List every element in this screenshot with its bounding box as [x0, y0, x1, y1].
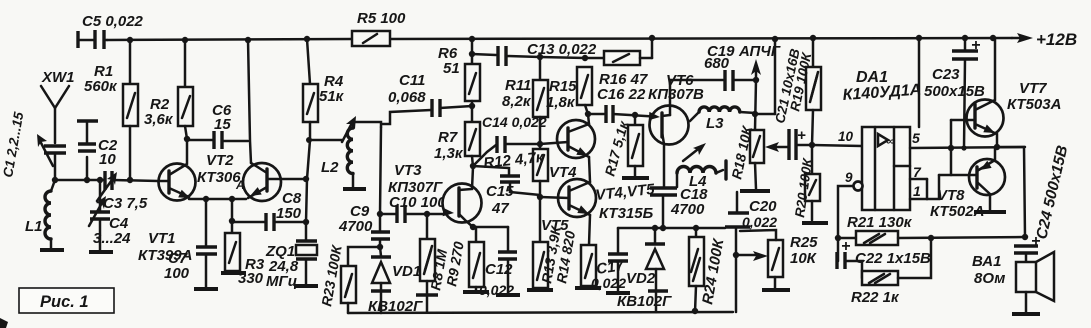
wire VT3 source — [470, 224, 508, 230]
svg-text:С22 1х15В: С22 1х15В — [855, 250, 931, 267]
svg-text:VT8: VT8 — [937, 187, 965, 204]
wire R16 to rail — [651, 38, 654, 58]
svg-text:R5 100: R5 100 — [357, 10, 406, 27]
wire L2 tap to C9 C10 node — [380, 127, 381, 214]
svg-text:+: + — [971, 37, 980, 54]
svg-text:КТ502А: КТ502А — [930, 203, 984, 220]
svg-text:КТ503А: КТ503А — [1007, 96, 1061, 113]
svg-text:1: 1 — [913, 183, 921, 199]
transistor VT6 — [648, 72, 704, 188]
resistor R4 — [303, 39, 345, 140]
svg-text:КВ102Г: КВ102Г — [368, 298, 423, 315]
resistor R3 — [221, 196, 265, 287]
svg-text:680: 680 — [704, 55, 730, 72]
node antenna input — [52, 177, 58, 183]
transistor VT8 — [930, 147, 1006, 220]
capacitor C4 variable — [89, 177, 131, 252]
svg-text:МГц: МГц — [266, 273, 297, 290]
capacitor C13 — [469, 41, 597, 66]
svg-text:8,2к: 8,2к — [502, 93, 532, 110]
wire input node to VT1 base — [55, 179, 104, 182]
capacitor C22 — [837, 238, 931, 278]
capacitor C3 trimmer — [97, 171, 148, 212]
resistor R24 — [689, 228, 728, 314]
capacitor C18 — [650, 186, 708, 228]
svg-text:330: 330 — [238, 270, 264, 287]
resistor R7 — [434, 122, 480, 169]
wire IF supply line — [537, 54, 588, 61]
svg-text:5: 5 — [912, 130, 920, 146]
capacitor C14 — [473, 114, 547, 166]
capacitor C2 — [77, 121, 118, 183]
svg-text:0,022: 0,022 — [591, 275, 626, 291]
svg-text:R21 130к: R21 130к — [847, 214, 913, 231]
svg-text:VD1: VD1 — [392, 263, 421, 280]
resistor R9 — [463, 227, 489, 292]
APCHG arrow terminal — [738, 43, 781, 83]
wire VT1 VT2 emitters — [189, 198, 246, 201]
antenna XW1 — [41, 69, 75, 143]
svg-text:15: 15 — [214, 116, 231, 133]
resistor R14 — [575, 215, 601, 288]
svg-text:R15: R15 — [549, 78, 577, 95]
svg-text:0,022: 0,022 — [479, 282, 514, 298]
resistor R1 — [84, 40, 138, 183]
svg-text:7: 7 — [913, 164, 922, 180]
svg-text:10К: 10К — [790, 250, 818, 267]
svg-text:+12В: +12В — [1036, 30, 1077, 49]
inductor L4 — [677, 161, 726, 190]
svg-text:VT5: VT5 — [541, 217, 569, 234]
svg-text:КТ306: КТ306 — [197, 169, 241, 186]
svg-text:VT7: VT7 — [1019, 80, 1047, 97]
capacitor C6 — [187, 102, 248, 149]
svg-text:∞: ∞ — [886, 134, 895, 148]
capacitor C10 — [380, 194, 446, 223]
svg-text:XW1: XW1 — [41, 69, 75, 86]
svg-text:0,022: 0,022 — [742, 214, 777, 230]
transistor VT3 — [388, 162, 482, 227]
svg-text:КВ102Г: КВ102Г — [617, 293, 672, 310]
transistor VT5 — [540, 157, 656, 234]
transistor VT7 — [951, 38, 1061, 237]
inductor L2 with trimmer arrow — [306, 116, 381, 189]
svg-text:1,3к: 1,3к — [434, 145, 464, 162]
resistor R18 potentiometer — [728, 80, 788, 191]
svg-text:560к: 560к — [84, 78, 118, 95]
pin 7 — [910, 164, 927, 180]
svg-text:КТ315Б: КТ315Б — [599, 205, 654, 222]
svg-text:С20: С20 — [749, 198, 777, 215]
node R6 R7 C11 — [469, 103, 475, 109]
capacitor C19 — [670, 43, 756, 91]
inductor L3 — [690, 36, 778, 132]
transistor VT2 — [197, 40, 305, 201]
svg-text:51: 51 — [443, 60, 460, 77]
svg-text:4700: 4700 — [338, 218, 373, 235]
wire varicap tuning bottom rail — [348, 312, 733, 313]
varicap VD2 — [617, 228, 672, 312]
capacitor C20 — [725, 192, 777, 312]
svg-text:R25: R25 — [790, 234, 818, 251]
wire VT1 collector — [186, 139, 189, 163]
svg-text:С5 0,022: С5 0,022 — [82, 13, 144, 30]
svg-text:R22 1к: R22 1к — [851, 289, 900, 306]
capacitor C5 — [78, 13, 144, 49]
svg-text:С16 22: С16 22 — [597, 86, 646, 103]
resistor R22 — [851, 238, 931, 306]
svg-text:С11: С11 — [399, 72, 425, 89]
pin 9 — [835, 170, 863, 261]
resistor R15 — [546, 67, 592, 124]
varicap VD1 — [371, 247, 421, 313]
resistor R11 — [502, 57, 548, 149]
resistor R5 — [352, 10, 406, 46]
Ris.1 figure label — [19, 288, 114, 313]
wire detector node — [618, 225, 725, 231]
resistor R6 — [438, 39, 480, 122]
svg-text:10: 10 — [99, 151, 116, 168]
resistor R17 — [601, 115, 649, 178]
svg-text:4700: 4700 — [670, 201, 705, 218]
svg-text:+: + — [841, 238, 850, 255]
resistor R19 — [787, 38, 821, 145]
resistor R23 — [318, 243, 380, 313]
resistor R8 — [416, 214, 467, 312]
svg-text:9: 9 — [845, 170, 853, 185]
svg-text:+: + — [797, 127, 806, 144]
transistor VT4 — [540, 120, 595, 181]
speaker BA1 — [972, 252, 1054, 314]
crystal ZQ1 — [265, 241, 318, 290]
capacitor C15 — [473, 166, 540, 217]
node VT1 collector — [184, 136, 190, 142]
svg-text:1,8к: 1,8к — [546, 94, 576, 111]
svg-text:8Ом: 8Ом — [974, 270, 1005, 287]
resistor R20 — [792, 145, 828, 223]
inductor L1 — [25, 180, 64, 250]
capacitor C7 — [164, 196, 218, 289]
svg-text:ВА1: ВА1 — [972, 253, 1001, 270]
svg-text:VD2: VD2 — [626, 270, 656, 287]
svg-text:0,068: 0,068 — [388, 89, 426, 106]
svg-text:100: 100 — [164, 265, 190, 282]
ferrite tuning arrow — [683, 143, 706, 161]
svg-text:VT1: VT1 — [148, 230, 176, 247]
op-amp DA1 — [842, 39, 922, 210]
svg-text:Рис. 1: Рис. 1 — [40, 293, 89, 311]
svg-text:3...24: 3...24 — [93, 230, 131, 247]
capacitor C24 — [1014, 144, 1071, 262]
svg-text:А: А — [235, 178, 245, 192]
svg-text:51к: 51к — [319, 88, 345, 105]
svg-text:L2: L2 — [321, 159, 339, 176]
wire oscillator feedback line — [303, 140, 310, 241]
resistor R2 — [144, 40, 193, 139]
svg-text:10: 10 — [838, 129, 854, 144]
svg-text:КП307Г: КП307Г — [388, 179, 443, 196]
svg-text:С23: С23 — [932, 66, 960, 83]
svg-text:VT3: VT3 — [394, 162, 422, 179]
transistor VT1 — [138, 164, 196, 265]
resistor R12 — [483, 149, 548, 242]
capacitor C1 variable — [0, 110, 66, 180]
svg-text:VT2: VT2 — [206, 152, 234, 169]
svg-text:С3 7,5: С3 7,5 — [103, 195, 148, 212]
svg-text:С12: С12 — [485, 261, 513, 278]
capacitor C16 — [588, 86, 662, 123]
capacitor C21 — [772, 47, 862, 160]
pin 1 — [910, 175, 939, 199]
resistor R21 — [838, 214, 1025, 245]
resistor R16 — [585, 51, 652, 88]
capacitor C11 — [382, 72, 472, 124]
node R8 top — [424, 211, 430, 217]
svg-text:L3: L3 — [706, 115, 724, 132]
resistor R25 potentiometer — [736, 230, 818, 290]
svg-text:L1: L1 — [25, 218, 43, 235]
svg-text:500х15В: 500х15В — [924, 83, 985, 100]
svg-text:С10 100: С10 100 — [389, 194, 446, 211]
+12V arrow terminal — [1012, 30, 1077, 49]
capacitor C9 — [338, 203, 390, 250]
capacitor C17 — [591, 228, 630, 293]
svg-text:47: 47 — [491, 200, 509, 217]
svg-text:КП307В: КП307В — [648, 86, 704, 103]
capacitor C23 — [924, 37, 985, 148]
svg-text:150: 150 — [276, 205, 302, 222]
resistor R13 — [527, 224, 578, 290]
svg-text:3,6к: 3,6к — [144, 111, 174, 128]
node C9 C10 junction — [377, 211, 383, 217]
pin 5 — [910, 130, 1025, 151]
svg-text:С15: С15 — [486, 183, 514, 200]
page corner mark — [0, 318, 8, 328]
capacitor C12 — [479, 227, 520, 298]
node rail junctions — [127, 35, 996, 43]
capacitor C8 — [232, 190, 305, 231]
wire +12V top rail — [107, 38, 1012, 40]
svg-text:R11: R11 — [505, 77, 531, 94]
svg-text:R7: R7 — [438, 129, 458, 146]
